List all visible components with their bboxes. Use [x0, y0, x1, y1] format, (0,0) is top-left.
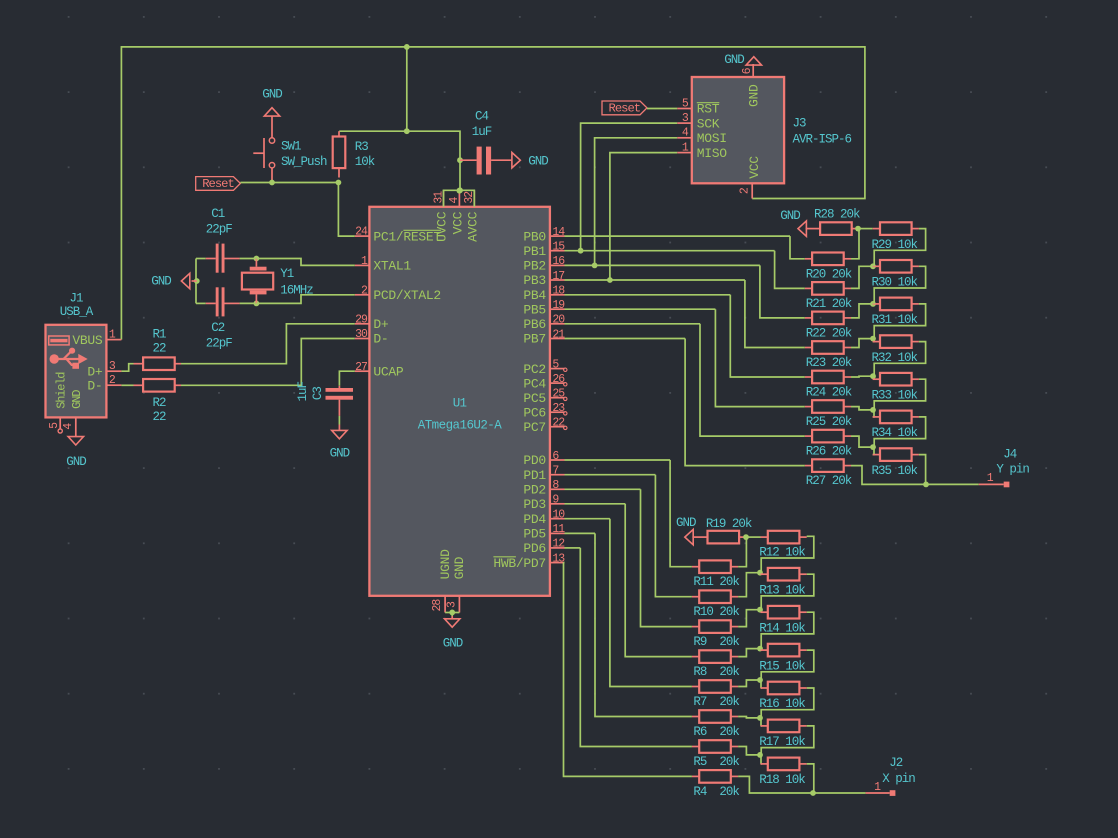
svg-text:AVR-ISP-6: AVR-ISP-6 — [793, 133, 852, 147]
svg-text:PCD/XTAL2: PCD/XTAL2 — [373, 288, 441, 303]
svg-text:AVCC: AVCC — [465, 211, 480, 242]
svg-text:C2: C2 — [211, 321, 225, 335]
svg-text:R27: R27 — [806, 474, 826, 488]
svg-text:PC7: PC7 — [523, 420, 546, 435]
svg-text:MISO: MISO — [697, 146, 728, 161]
svg-text:GND: GND — [70, 390, 84, 409]
svg-text:PD4: PD4 — [523, 512, 546, 527]
svg-text:20k: 20k — [719, 725, 739, 739]
svg-text:20k: 20k — [832, 297, 852, 311]
svg-text:R1: R1 — [152, 328, 166, 342]
svg-text:C4: C4 — [475, 109, 489, 123]
svg-text:R6: R6 — [693, 725, 707, 739]
svg-text:GND: GND — [151, 275, 171, 289]
svg-text:Reset: Reset — [202, 177, 234, 191]
svg-text:14: 14 — [552, 226, 565, 239]
svg-text:D+: D+ — [373, 317, 389, 332]
svg-text:PB0: PB0 — [523, 229, 546, 244]
svg-text:10: 10 — [552, 509, 565, 522]
svg-text:R3: R3 — [355, 140, 369, 154]
svg-text:GND: GND — [66, 455, 86, 469]
svg-text:R23: R23 — [806, 356, 826, 370]
svg-text:GND: GND — [452, 556, 467, 579]
svg-text:X pin: X pin — [882, 772, 915, 786]
svg-text:J3: J3 — [793, 117, 807, 131]
svg-text:PB3: PB3 — [523, 273, 546, 288]
svg-text:R34 10k: R34 10k — [872, 426, 918, 440]
svg-text:R31 10k: R31 10k — [872, 313, 918, 327]
svg-text:PC1/RESET: PC1/RESET — [373, 229, 441, 244]
svg-text:Shield: Shield — [54, 372, 68, 409]
svg-text:PB2: PB2 — [523, 259, 546, 274]
svg-text:11: 11 — [552, 523, 565, 536]
svg-text:R33 10k: R33 10k — [872, 388, 918, 402]
svg-text:20k: 20k — [832, 326, 852, 340]
svg-text:PC6: PC6 — [523, 405, 546, 420]
svg-text:R30 10k: R30 10k — [872, 276, 918, 290]
svg-text:MOSI: MOSI — [697, 131, 727, 146]
svg-text:J1: J1 — [69, 292, 83, 306]
svg-text:D-: D- — [87, 378, 102, 393]
svg-text:R25: R25 — [806, 415, 826, 429]
svg-text:1uF: 1uF — [472, 125, 492, 139]
svg-text:PD5: PD5 — [523, 527, 546, 542]
svg-text:GND: GND — [443, 636, 463, 650]
svg-text:GND: GND — [676, 516, 696, 530]
svg-text:PD3: PD3 — [523, 497, 546, 512]
svg-text:16: 16 — [552, 255, 565, 268]
svg-text:R22: R22 — [806, 326, 826, 340]
svg-text:PC4: PC4 — [523, 376, 546, 391]
svg-text:R14 10k: R14 10k — [759, 621, 805, 635]
svg-text:PB4: PB4 — [523, 288, 546, 303]
svg-text:PB5: PB5 — [523, 302, 546, 317]
svg-text:20k: 20k — [832, 474, 852, 488]
svg-text:R20: R20 — [806, 267, 826, 281]
svg-text:GND: GND — [330, 447, 350, 461]
svg-text:R32 10k: R32 10k — [872, 351, 918, 365]
svg-text:20k: 20k — [832, 267, 852, 281]
svg-text:R5: R5 — [693, 755, 707, 769]
svg-text:30: 30 — [355, 328, 368, 341]
svg-text:20: 20 — [552, 314, 565, 327]
svg-text:XTAL1: XTAL1 — [373, 259, 411, 274]
svg-text:GND: GND — [780, 209, 800, 223]
svg-text:24: 24 — [355, 226, 368, 239]
svg-text:R10: R10 — [693, 605, 713, 619]
svg-text:PC5: PC5 — [523, 391, 546, 406]
svg-text:20k: 20k — [719, 695, 739, 709]
svg-text:R16 10k: R16 10k — [759, 697, 805, 711]
svg-text:R28 20k: R28 20k — [814, 208, 860, 222]
svg-text:22: 22 — [152, 342, 166, 356]
svg-text:PD2: PD2 — [523, 483, 546, 498]
svg-text:VCC: VCC — [450, 211, 465, 234]
svg-text:GND: GND — [262, 88, 282, 102]
svg-text:RST: RST — [697, 102, 720, 117]
svg-text:Reset: Reset — [609, 102, 641, 116]
svg-text:PB6: PB6 — [523, 317, 546, 332]
svg-text:PB1: PB1 — [523, 244, 546, 259]
svg-text:UGND: UGND — [438, 549, 453, 580]
svg-text:J2: J2 — [889, 756, 903, 770]
svg-text:22pF: 22pF — [206, 337, 233, 351]
svg-text:R29 10k: R29 10k — [872, 238, 918, 252]
svg-text:D+: D+ — [87, 364, 103, 379]
svg-text:R12 10k: R12 10k — [759, 546, 805, 560]
svg-text:20k: 20k — [719, 755, 739, 769]
svg-text:R4: R4 — [693, 785, 707, 799]
svg-text:R17 10k: R17 10k — [759, 735, 805, 749]
svg-text:20k: 20k — [832, 356, 852, 370]
svg-text:USB_A: USB_A — [60, 305, 94, 319]
svg-text:PC2: PC2 — [523, 362, 546, 377]
svg-text:GND: GND — [747, 84, 762, 107]
svg-text:20k: 20k — [832, 386, 852, 400]
svg-text:17: 17 — [552, 270, 564, 283]
svg-text:19: 19 — [552, 299, 565, 312]
svg-text:12: 12 — [552, 538, 565, 551]
svg-text:C3: C3 — [311, 387, 325, 401]
svg-text:1uF: 1uF — [296, 381, 310, 401]
svg-text:15: 15 — [552, 241, 565, 254]
svg-text:PB7: PB7 — [523, 332, 546, 347]
svg-text:HWB/PD7: HWB/PD7 — [493, 556, 546, 571]
svg-text:C1: C1 — [211, 207, 225, 221]
svg-text:R7: R7 — [693, 695, 707, 709]
svg-text:R9: R9 — [693, 635, 707, 649]
svg-text:R35 10k: R35 10k — [872, 464, 918, 478]
svg-text:20k: 20k — [832, 415, 852, 429]
svg-text:20k: 20k — [719, 635, 739, 649]
svg-text:U1: U1 — [453, 397, 467, 411]
svg-text:R24: R24 — [806, 386, 826, 400]
svg-text:R11: R11 — [693, 575, 713, 589]
svg-text:20k: 20k — [832, 445, 852, 459]
svg-text:UCAP: UCAP — [373, 364, 404, 379]
svg-text:R26: R26 — [806, 445, 826, 459]
svg-text:7: 7 — [552, 465, 558, 478]
svg-text:21: 21 — [552, 328, 565, 341]
svg-text:VCC: VCC — [747, 156, 762, 179]
svg-text:20k: 20k — [719, 665, 739, 679]
svg-text:29: 29 — [355, 313, 368, 326]
svg-text:10k: 10k — [355, 155, 375, 169]
svg-text:GND: GND — [724, 53, 744, 67]
svg-text:22: 22 — [152, 410, 166, 424]
svg-text:20k: 20k — [719, 575, 739, 589]
svg-text:18: 18 — [552, 285, 565, 298]
svg-text:R15 10k: R15 10k — [759, 659, 805, 673]
svg-text:ATmega16U2-A: ATmega16U2-A — [418, 419, 502, 433]
svg-text:R13 10k: R13 10k — [759, 583, 805, 597]
svg-text:J4: J4 — [1003, 448, 1017, 462]
svg-text:22pF: 22pF — [206, 222, 233, 236]
svg-text:VBUS: VBUS — [72, 333, 103, 348]
svg-text:PD0: PD0 — [523, 453, 546, 468]
svg-text:SW1: SW1 — [281, 140, 301, 154]
svg-text:SCK: SCK — [697, 116, 720, 131]
svg-text:D-: D- — [373, 332, 388, 347]
svg-text:PD6: PD6 — [523, 541, 546, 556]
svg-text:SW_Push: SW_Push — [281, 155, 327, 169]
svg-text:R19 20k: R19 20k — [706, 517, 752, 531]
svg-text:R2: R2 — [152, 396, 166, 410]
svg-text:UVCC: UVCC — [435, 211, 450, 242]
svg-text:28: 28 — [431, 599, 444, 612]
svg-text:R8: R8 — [693, 665, 707, 679]
svg-text:20k: 20k — [719, 605, 739, 619]
svg-text:R21: R21 — [806, 297, 826, 311]
svg-text:20k: 20k — [719, 785, 739, 799]
svg-text:GND: GND — [528, 155, 548, 169]
svg-text:Y1: Y1 — [280, 267, 294, 281]
svg-text:PD1: PD1 — [523, 468, 546, 483]
svg-text:Y pin: Y pin — [996, 463, 1029, 477]
svg-text:27: 27 — [355, 361, 367, 374]
svg-text:R18 10k: R18 10k — [759, 773, 805, 787]
